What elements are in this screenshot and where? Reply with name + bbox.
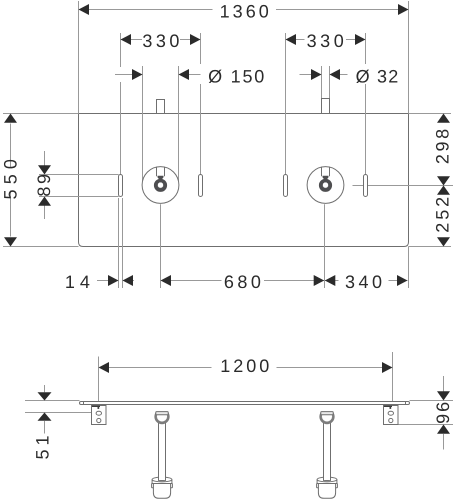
svg-text:96: 96 <box>433 400 453 424</box>
svg-text:1 4: 1 4 <box>65 272 90 292</box>
svg-text:330: 330 <box>142 31 183 51</box>
svg-text:252: 252 <box>433 194 453 233</box>
svg-text:1360: 1360 <box>220 1 272 21</box>
svg-text:298: 298 <box>433 126 453 164</box>
svg-text:680: 680 <box>224 272 265 292</box>
svg-text:51: 51 <box>33 431 53 459</box>
svg-text:89: 89 <box>34 171 54 196</box>
svg-text:Ø 150: Ø 150 <box>208 66 266 86</box>
svg-text:Ø 32: Ø 32 <box>356 66 400 86</box>
svg-text:550: 550 <box>1 154 21 200</box>
svg-text:1200: 1200 <box>220 356 272 376</box>
svg-text:330: 330 <box>307 31 348 51</box>
svg-text:340: 340 <box>345 272 386 292</box>
